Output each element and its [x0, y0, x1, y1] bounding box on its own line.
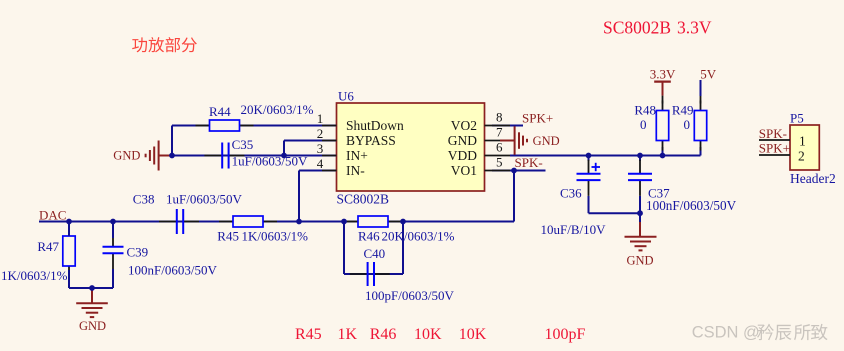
wire R47 top: [68, 222, 70, 237]
wire R44 row to pin1: [172, 125, 337, 127]
svg-text:1K/0603/1%: 1K/0603/1%: [242, 229, 309, 244]
wire bottom rail R47-C39: [69, 287, 113, 289]
svg-text:20K/0603/1%: 20K/0603/1%: [241, 102, 314, 117]
svg-text:3: 3: [317, 141, 324, 156]
op-amp U6 SC8002B body: [337, 103, 485, 191]
wire R47 bottom: [68, 270, 70, 288]
svg-text:SPK+: SPK+: [759, 140, 790, 155]
svg-text:10K: 10K: [414, 326, 442, 343]
svg-text:R45: R45: [295, 326, 322, 343]
resistor R47: [63, 226, 75, 276]
svg-text:R48: R48: [634, 103, 656, 118]
resistor R44: [196, 120, 254, 131]
capacitor C39: [103, 233, 124, 269]
capacitor C36 plates: [577, 160, 601, 196]
wire C39 top: [112, 222, 114, 239]
watermark 矜辰所致: [757, 324, 774, 340]
svg-text:1K: 1K: [338, 326, 358, 343]
wire C40 bottom: [344, 273, 403, 275]
wire to pin3: [284, 155, 337, 157]
svg-text:100nF/0603/50V: 100nF/0603/50V: [646, 198, 737, 213]
capacitor C37: [628, 160, 652, 196]
wire C35 row: [172, 155, 284, 157]
wire C40 left leg: [343, 222, 345, 275]
svg-text:4: 4: [317, 156, 324, 171]
svg-text:R46: R46: [358, 229, 380, 244]
svg-text:U6: U6: [338, 89, 354, 104]
junction DAC/C39: [110, 219, 116, 225]
junction R44/C35/GND: [169, 153, 175, 159]
wire to pin2: [284, 140, 337, 142]
ground GND DAC filter: [76, 288, 108, 317]
ground GND C37: [625, 213, 657, 250]
svg-text:1: 1: [317, 111, 324, 126]
svg-text:GND: GND: [533, 134, 560, 148]
svg-text:0: 0: [640, 117, 647, 132]
svg-text:GND: GND: [627, 253, 654, 267]
svg-text:R45: R45: [217, 229, 239, 244]
capacitor C40: [350, 262, 390, 286]
svg-text:1K/0603/1%: 1K/0603/1%: [1, 268, 68, 283]
pin 5 VO1: [485, 170, 511, 172]
pin 8 VO2: [485, 125, 511, 127]
svg-text:5: 5: [496, 155, 503, 170]
svg-text:2: 2: [798, 149, 805, 164]
svg-text:100pF: 100pF: [545, 326, 586, 343]
resistor R48: [656, 101, 668, 151]
wire R49 bottom stem: [700, 147, 702, 156]
svg-text:DAC: DAC: [39, 207, 66, 222]
svg-text:1uF/0603/50V: 1uF/0603/50V: [232, 154, 308, 169]
junction C40 right: [400, 219, 406, 225]
svg-text:R47: R47: [37, 239, 59, 254]
svg-text:8: 8: [496, 110, 503, 125]
svg-text:SPK-: SPK-: [759, 126, 787, 141]
svg-text:5V: 5V: [700, 66, 717, 81]
resistor R46: [344, 216, 402, 227]
wire to pin4: [299, 170, 337, 172]
wire VO1 feedback drop: [513, 171, 515, 222]
pin 2 BYPASS: [322, 140, 337, 142]
ground GND pin7: [500, 126, 527, 155]
pin 3 IN+: [322, 155, 337, 157]
svg-text:CSDN @: CSDN @: [692, 324, 760, 342]
wire IN- drop: [298, 171, 300, 222]
svg-text:ShutDown: ShutDown: [346, 118, 404, 133]
junction BYPASS/IN+: [281, 153, 287, 159]
svg-text:R44: R44: [209, 104, 231, 119]
wire C36 bottom stem: [588, 196, 590, 213]
pin 7 GND: [485, 140, 501, 142]
svg-text:R46: R46: [370, 326, 397, 343]
svg-text:SPK+: SPK+: [522, 110, 553, 125]
svg-text:3.3V: 3.3V: [677, 18, 712, 38]
wire C36 top stem: [588, 156, 590, 162]
svg-text:20K/0603/1%: 20K/0603/1%: [382, 229, 455, 244]
pin 6 VDD: [485, 155, 511, 157]
junction GND rail: [89, 285, 95, 291]
annotation title 功放部分: [132, 37, 147, 52]
wire BYPASS drop: [283, 141, 285, 156]
svg-text:10K: 10K: [459, 326, 487, 343]
svg-text:SC8002B: SC8002B: [603, 18, 671, 38]
svg-text:C38: C38: [133, 191, 155, 206]
wire SPK+ stub: [492, 125, 523, 127]
resistor R49: [694, 101, 706, 151]
wire SPK- stub: [492, 170, 546, 172]
svg-text:1uF/0603/50V: 1uF/0603/50V: [166, 191, 242, 206]
svg-text:SC8002B: SC8002B: [337, 191, 390, 206]
wire C37 bottom stem: [639, 196, 641, 213]
svg-text:100nF/0603/50V: 100nF/0603/50V: [128, 263, 217, 278]
P5 pin 1: [759, 139, 790, 141]
wire C40 right leg: [402, 222, 404, 275]
svg-text:BYPASS: BYPASS: [346, 133, 396, 148]
junction DAC/R47: [66, 219, 72, 225]
svg-text:VO2: VO2: [451, 118, 477, 133]
svg-text:VO1: VO1: [451, 163, 477, 178]
svg-text:1: 1: [799, 134, 806, 149]
svg-text:2: 2: [317, 126, 324, 141]
capacitor C38: [159, 209, 199, 234]
junction C36 top: [586, 153, 592, 159]
svg-text:0: 0: [684, 117, 691, 132]
svg-text:C40: C40: [364, 246, 386, 261]
svg-text:R49: R49: [672, 103, 694, 118]
svg-text:C35: C35: [232, 137, 254, 152]
wire C36-C37 bottom rail: [589, 212, 641, 214]
svg-text:Header2: Header2: [790, 171, 836, 186]
junction C37 top: [637, 153, 643, 159]
svg-text:IN-: IN-: [346, 163, 365, 178]
svg-text:6: 6: [496, 140, 503, 155]
P5 pin 2: [759, 154, 790, 156]
connector P5 body: [790, 125, 819, 170]
svg-text:SPK-: SPK-: [515, 155, 543, 170]
ground GND left: [146, 141, 172, 171]
junction IN- rail: [296, 219, 302, 225]
wire C37 top stem: [639, 156, 641, 162]
svg-text:C39: C39: [127, 245, 149, 260]
svg-text:GND: GND: [79, 319, 106, 333]
resistor R45: [219, 216, 277, 227]
pin 4 IN-: [322, 170, 337, 172]
svg-text:VDD: VDD: [448, 148, 477, 163]
junction C40 left: [341, 219, 347, 225]
wire C39 bottom: [112, 269, 114, 288]
capacitor C35: [204, 143, 244, 169]
svg-text:7: 7: [496, 125, 503, 140]
svg-text:P5: P5: [790, 110, 804, 125]
svg-text:IN+: IN+: [346, 148, 368, 163]
svg-text:3.3V: 3.3V: [650, 66, 676, 81]
pin 1 ShutDown: [322, 125, 337, 127]
junction VO1/SPK-: [511, 168, 517, 174]
plus sign C36: [592, 163, 601, 171]
wire R44 left vertical: [171, 126, 173, 156]
junction R48 bottom: [660, 153, 666, 159]
junction C37/GND: [637, 210, 643, 216]
svg-text:GND: GND: [113, 148, 140, 162]
wire VDD rail: [510, 155, 701, 157]
wire DAC rail: [39, 221, 514, 223]
svg-text:GND: GND: [448, 133, 477, 148]
svg-text:10uF/B/10V: 10uF/B/10V: [541, 222, 607, 237]
svg-text:100pF/0603/50V: 100pF/0603/50V: [365, 288, 454, 303]
wire R48 bottom stem: [662, 147, 664, 156]
svg-text:C36: C36: [560, 185, 582, 200]
